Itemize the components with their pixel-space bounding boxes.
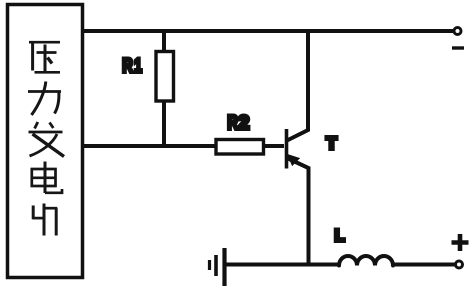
svg-text:R: R	[122, 54, 133, 77]
svg-text:L: L	[335, 227, 345, 245]
svg-text:2: 2	[238, 112, 249, 134]
svg-text:1: 1	[134, 55, 142, 77]
svg-text:T: T	[326, 133, 337, 153]
svg-text:R: R	[227, 111, 238, 134]
